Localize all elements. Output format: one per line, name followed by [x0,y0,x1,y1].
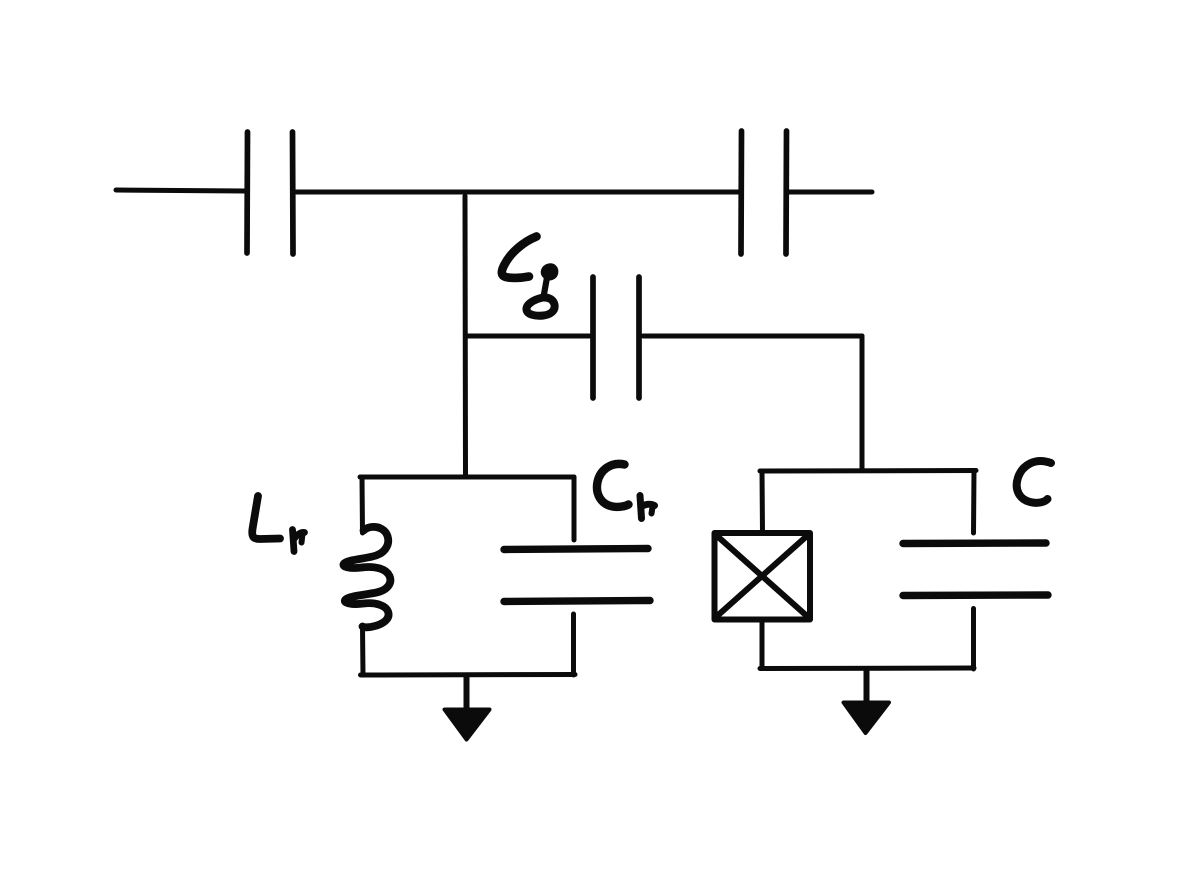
capacitor Cr plates [504,549,650,602]
Josephson junction box [715,533,811,620]
wire resonator loop right edge lower [571,614,576,675]
label Cg [502,237,556,316]
label Cr [597,464,655,519]
wire input lead [116,190,245,191]
wire resonator loop left edge upper [360,477,366,533]
wire top bus [296,190,740,195]
ground (qubit) stem [864,670,870,704]
wire resonator loop bottom edge [361,672,576,678]
wire vertical drop to qubit loop [860,336,865,470]
inductor Lr coil [343,527,390,627]
wire Cg to qubit [643,334,862,339]
wire output lead [789,190,872,195]
capacitor Cg plates [593,277,639,398]
label Lr [252,496,304,552]
wire resonator loop left edge lower [360,626,366,675]
ground (resonator) triangle [445,710,490,740]
wire resonator node to Cg [466,334,590,339]
capacitor C plates [903,543,1048,596]
wire qubit loop right edge lower [971,609,976,670]
capacitor C_in (left coupling capacitor plates) [247,132,293,254]
wire resonator loop right edge upper [572,477,577,540]
wire qubit loop left edge upper [760,471,766,533]
wire resonator loop top edge [360,475,574,480]
ground (qubit) triangle [844,703,890,734]
wire qubit loop top edge [760,468,976,474]
label C [1017,461,1051,503]
wire qubit loop bottom edge [760,666,974,672]
ground (resonator) stem [464,676,470,711]
wire qubit loop right edge upper [971,471,977,534]
Josephson junction X diagonals [716,535,808,617]
wire qubit loop left edge lower [760,620,765,669]
capacitor C_out (right coupling capacitor plates) [741,131,787,254]
wire vertical drop from bus to resonator [463,196,469,477]
